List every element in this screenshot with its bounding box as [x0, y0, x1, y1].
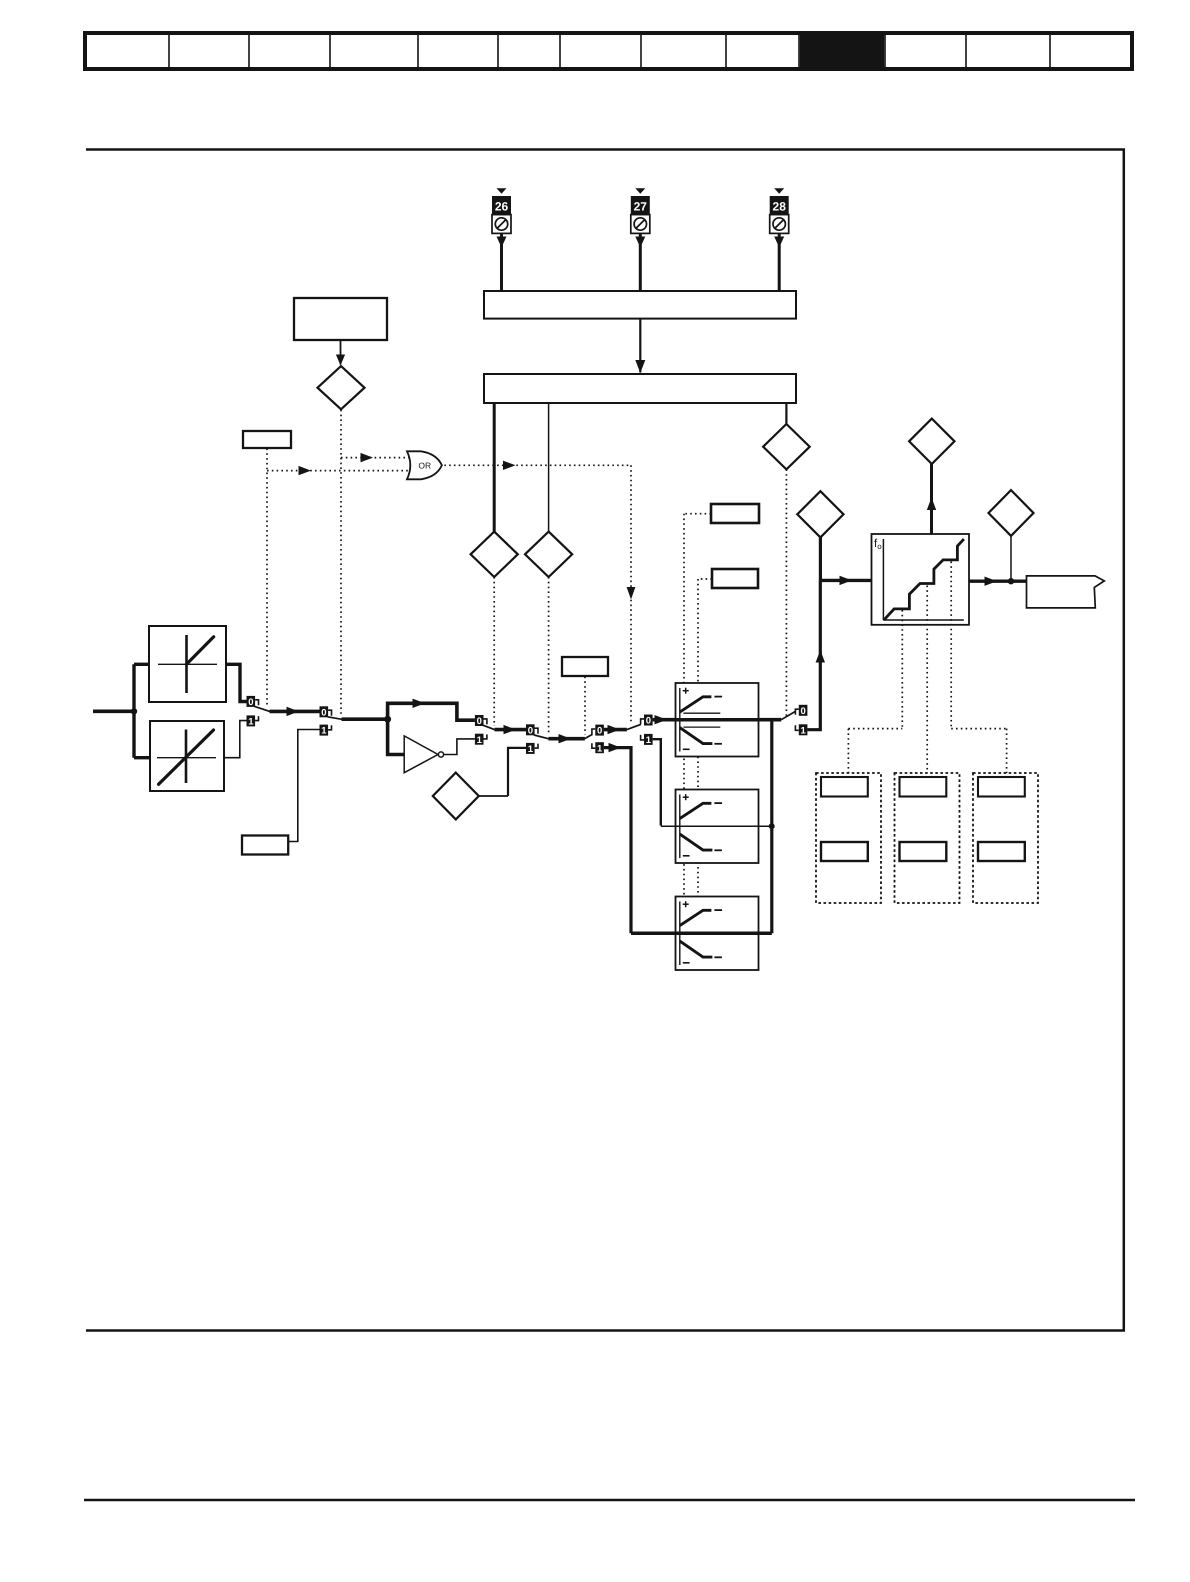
svg-text:1: 1: [321, 726, 327, 737]
svg-text:1: 1: [597, 743, 603, 754]
svg-text:OR: OR: [418, 460, 431, 470]
svg-text:27: 27: [634, 199, 648, 213]
svg-text:0: 0: [528, 725, 533, 736]
svg-text:0: 0: [248, 697, 253, 708]
svg-text:0: 0: [646, 716, 651, 727]
svg-text:1: 1: [248, 717, 254, 728]
svg-text:0: 0: [801, 706, 806, 717]
svg-text:0: 0: [597, 726, 602, 737]
svg-text:0: 0: [477, 716, 482, 727]
svg-text:1: 1: [801, 725, 807, 736]
svg-text:1: 1: [646, 735, 652, 746]
svg-text:1: 1: [477, 735, 483, 746]
svg-text:26: 26: [495, 199, 509, 213]
svg-text:28: 28: [773, 199, 787, 213]
svg-text:1: 1: [528, 744, 534, 755]
svg-text:0: 0: [321, 707, 326, 718]
